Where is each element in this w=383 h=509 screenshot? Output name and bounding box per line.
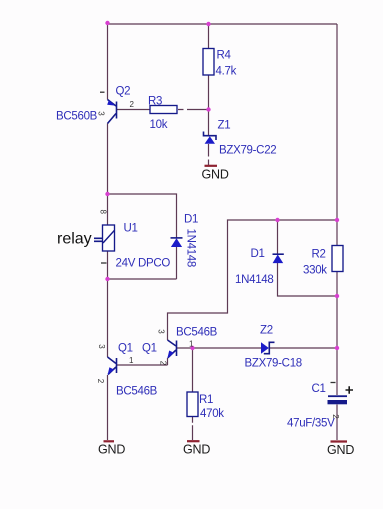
svg-text:Z2: Z2: [260, 325, 273, 337]
svg-text:Q2: Q2: [116, 86, 131, 98]
svg-text:10k: 10k: [150, 119, 168, 131]
svg-text:R3: R3: [148, 96, 162, 108]
svg-text:R2: R2: [312, 249, 326, 261]
svg-text:3: 3: [97, 344, 106, 349]
svg-text:GND: GND: [183, 443, 210, 457]
svg-text:U1: U1: [124, 223, 138, 235]
svg-text:1: 1: [189, 340, 194, 349]
svg-text:D1: D1: [251, 248, 265, 260]
svg-text:47uF/35V: 47uF/35V: [287, 418, 335, 430]
svg-text:relay: relay: [57, 231, 92, 248]
svg-text:Q1: Q1: [142, 343, 157, 355]
svg-text:1N4148: 1N4148: [235, 274, 273, 286]
svg-text:3: 3: [157, 329, 166, 334]
svg-text:2: 2: [130, 100, 135, 109]
svg-text:Q1: Q1: [118, 343, 133, 355]
svg-text:Z1: Z1: [218, 119, 231, 131]
svg-text:GND: GND: [327, 443, 354, 457]
svg-text:24V DPCO: 24V DPCO: [116, 258, 171, 270]
svg-text:4.7k: 4.7k: [216, 66, 237, 78]
svg-text:8: 8: [99, 210, 108, 215]
svg-text:GND: GND: [98, 443, 125, 457]
svg-text:330k: 330k: [303, 265, 327, 277]
svg-text:BC546B: BC546B: [176, 327, 218, 339]
svg-text:GND: GND: [202, 168, 229, 182]
svg-text:D1: D1: [184, 214, 198, 226]
svg-text:3: 3: [97, 111, 106, 116]
svg-text:1N4148: 1N4148: [185, 229, 197, 267]
svg-text:BZX79-C22: BZX79-C22: [219, 145, 276, 157]
svg-text:C1: C1: [312, 383, 326, 395]
svg-text:2: 2: [96, 379, 105, 384]
svg-text:BC546B: BC546B: [116, 386, 158, 398]
svg-text:2: 2: [331, 414, 340, 419]
svg-text:BC560B: BC560B: [56, 111, 98, 123]
svg-text:2: 2: [159, 361, 168, 366]
svg-text:BZX79-C18: BZX79-C18: [245, 358, 302, 370]
svg-text:470k: 470k: [200, 408, 224, 420]
svg-text:R1: R1: [199, 394, 213, 406]
svg-text:R4: R4: [217, 50, 232, 62]
svg-text:1: 1: [129, 356, 134, 365]
